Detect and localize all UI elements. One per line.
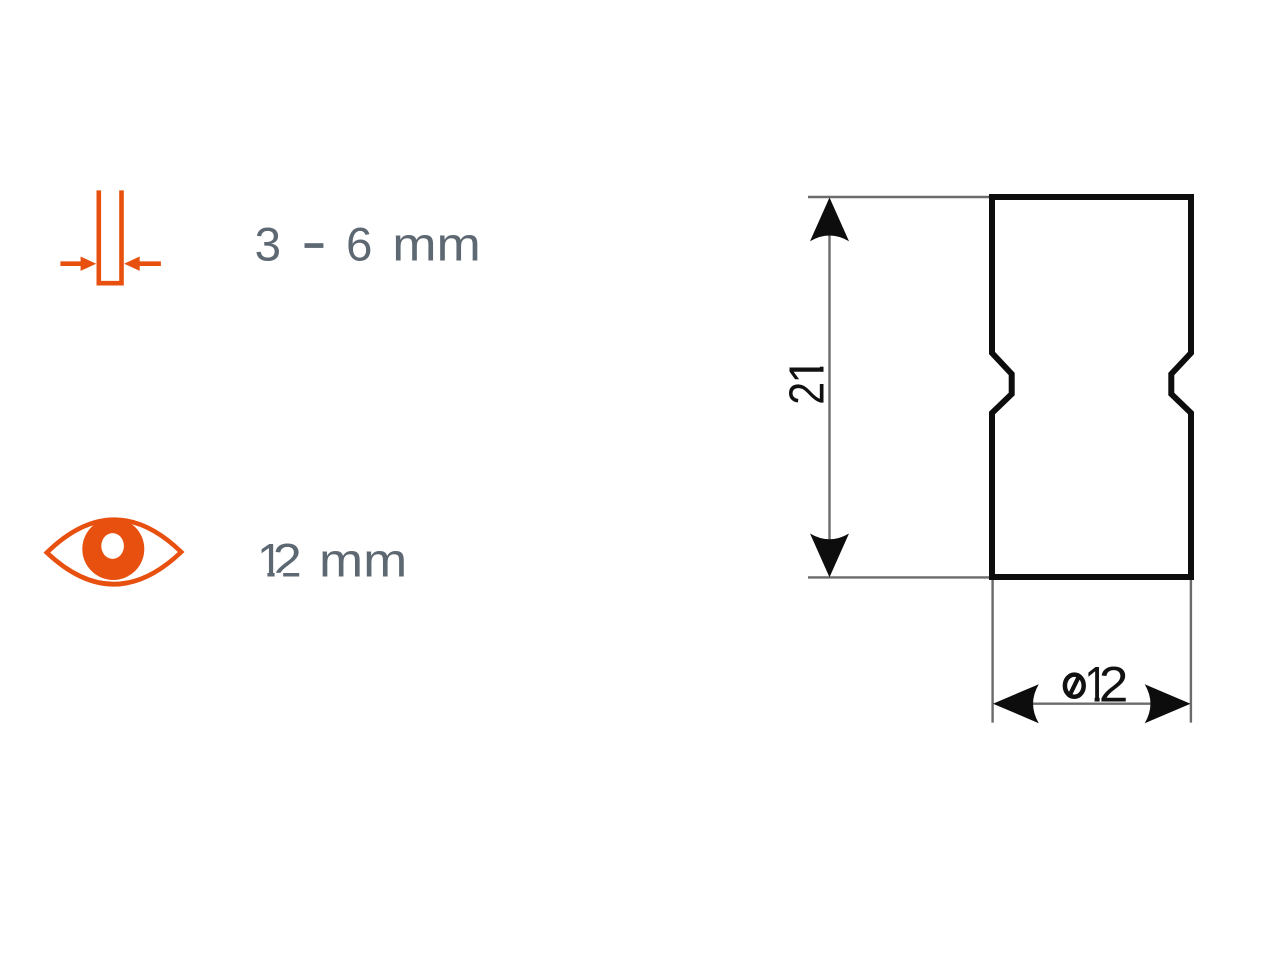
svg-text:2: 2	[273, 534, 302, 587]
svg-text:2: 2	[779, 382, 834, 405]
svg-text:2: 2	[1099, 657, 1129, 713]
svg-text:mm: mm	[319, 533, 407, 587]
svg-text:mm: mm	[392, 217, 481, 271]
svg-text:1: 1	[780, 357, 835, 384]
